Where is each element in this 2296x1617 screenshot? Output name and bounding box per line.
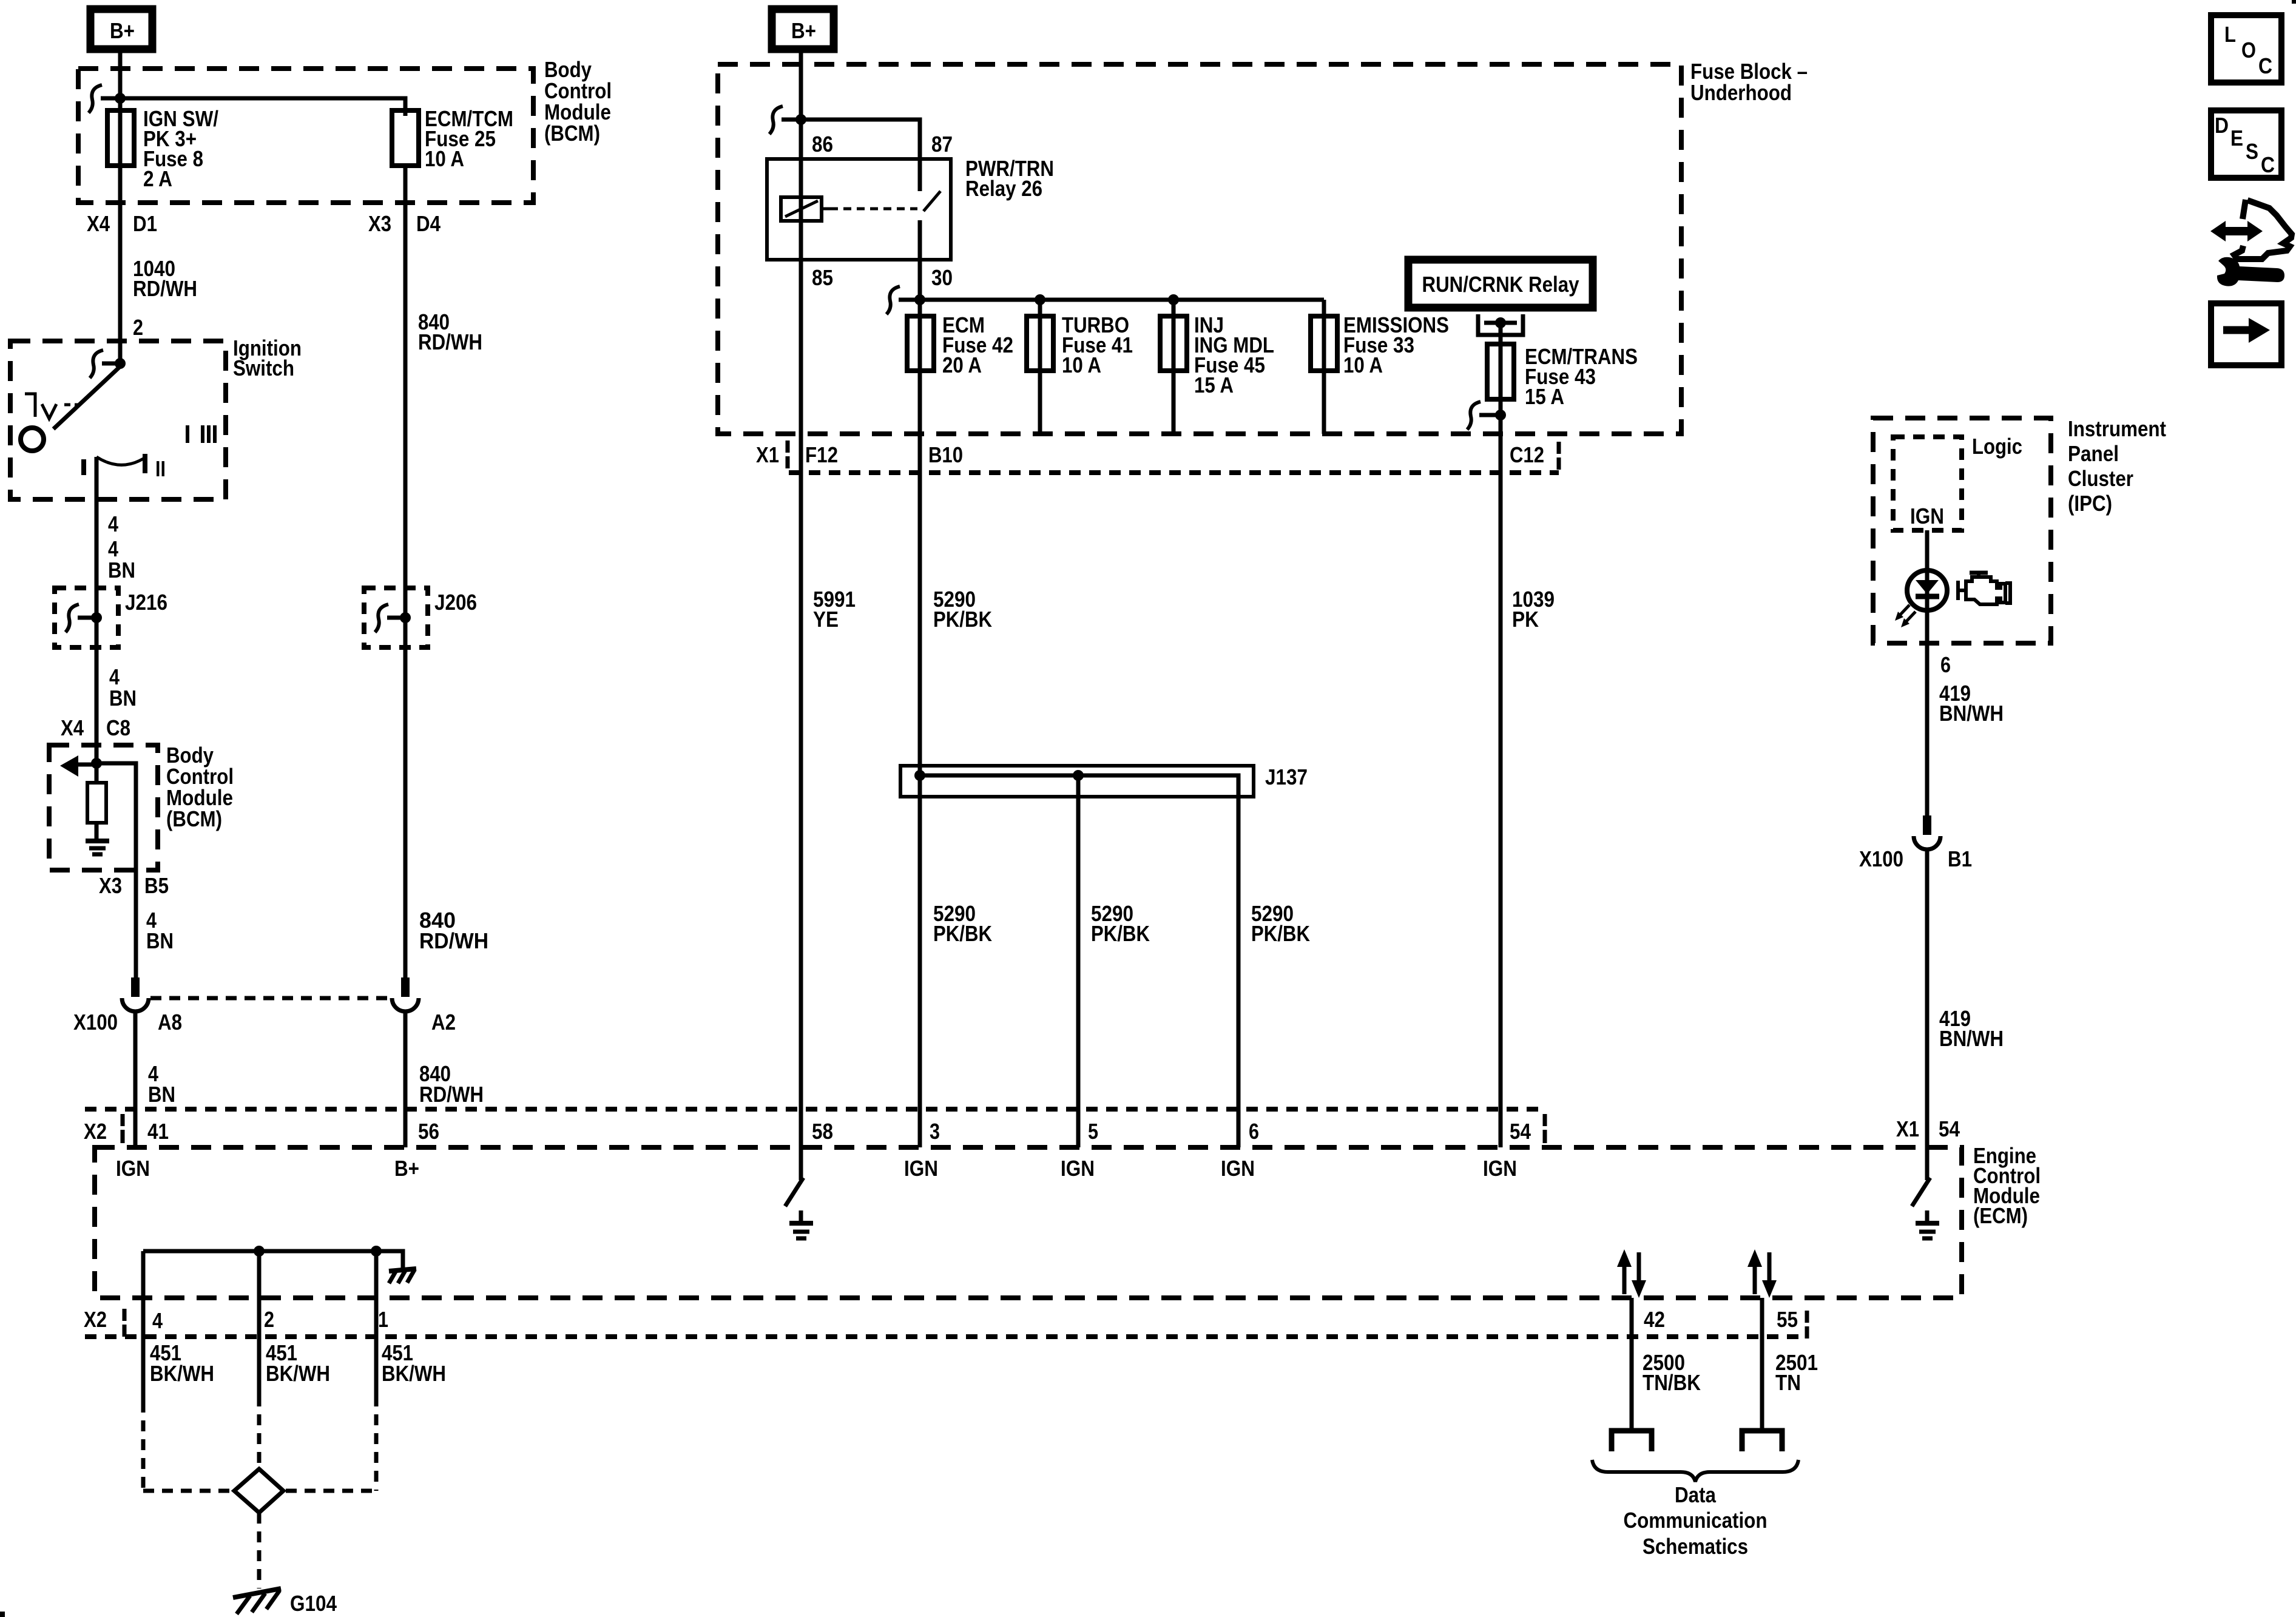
wire to relay pin 87 (801, 120, 920, 191)
svg-text:BN: BN (109, 686, 137, 711)
svg-text:IGN: IGN (904, 1156, 938, 1181)
B+ power terminal box (left) (90, 9, 152, 49)
ECM X2 connector strip (upper) (84, 1109, 1545, 1144)
wire label 1040 RD/WH (133, 256, 197, 301)
wiper travel arc with I and II marks (84, 454, 166, 481)
current-path hook at BCM B+ entry (89, 85, 102, 113)
ignition switch blade (53, 366, 120, 429)
svg-text:RD/WH: RD/WH (419, 1082, 484, 1107)
page artifact mark top-right (2292, 0, 2296, 4)
svg-text:F12: F12 (805, 442, 838, 467)
svg-text:B+: B+ (110, 18, 135, 43)
svg-text:RUN/CRNK Relay: RUN/CRNK Relay (1422, 272, 1579, 297)
svg-text:G104: G104 (290, 1591, 337, 1616)
fuse: IGN SW/PK 3+ Fuse 8 2A (107, 106, 218, 191)
B+ power terminal box (middle) (772, 9, 834, 49)
svg-text:56: 56 (418, 1119, 439, 1144)
svg-text:B+: B+ (394, 1156, 419, 1181)
wire label 4 BN (108, 536, 135, 582)
ECM X1 pin 54 labels (1896, 1116, 1960, 1141)
wire ECM pin 4 (141, 1251, 146, 1402)
svg-text:L: L (2224, 22, 2236, 47)
splice J216 (55, 588, 167, 647)
svg-text:41: 41 (147, 1119, 169, 1144)
svg-text:BN: BN (108, 558, 135, 582)
wire label 2501 TN (1775, 1350, 1818, 1395)
wire IGN down through indicator to X100 B1 (1925, 530, 1930, 815)
pin labels X4 C8 (61, 715, 130, 740)
svg-text:10 A: 10 A (1062, 353, 1101, 377)
svg-text:10 A: 10 A (425, 146, 464, 171)
node: ignition switch feed (115, 358, 126, 369)
svg-text:(ECM): (ECM) (1973, 1203, 2028, 1228)
data link arrows (pin 55) (1747, 1249, 1777, 1298)
wire across BCM to Fuse 25 (120, 98, 405, 116)
svg-text:42: 42 (1644, 1307, 1665, 1332)
hook at fused-output bus (886, 286, 900, 314)
svg-text:YE: YE (813, 607, 839, 632)
svg-text:X1: X1 (1896, 1116, 1919, 1141)
svg-text:Logic: Logic (1972, 434, 2022, 459)
relay coil (781, 197, 822, 221)
wire B+ down through relay coil to ECM pin 58 (799, 53, 803, 1180)
svg-text:Instrument: Instrument (2068, 416, 2166, 441)
ground G104 (233, 1588, 337, 1616)
position marks I III (187, 425, 215, 443)
svg-text:86: 86 (812, 132, 833, 157)
svg-text:Underhood: Underhood (1690, 80, 1792, 105)
wire label 419 BN/WH (upper) (1939, 681, 2004, 726)
svg-text:PK/BK: PK/BK (933, 607, 992, 632)
wire label 2500 TN/BK (1643, 1350, 1701, 1395)
wire label 4 BN (below J216) (109, 664, 137, 711)
branch wire to B5 output (96, 763, 136, 977)
svg-text:54: 54 (1939, 1116, 1960, 1141)
accessory contact mark (25, 394, 35, 417)
svg-text:(IPC): (IPC) (2068, 491, 2112, 516)
wire B+ down through Fuse 8 to ignition switch (118, 53, 123, 363)
svg-text:X100: X100 (73, 1010, 118, 1035)
icon: forward arrow box (2211, 303, 2281, 365)
svg-text:J206: J206 (434, 590, 477, 615)
svg-text:B1: B1 (1948, 846, 1972, 871)
icon: harness routing with wrench (2210, 200, 2292, 286)
fuse: TURBO Fuse 41 10A (1027, 312, 1133, 377)
svg-text:PK/BK: PK/BK (1251, 921, 1310, 946)
fuse: ECM/TRANS Fuse 43 15A (1487, 344, 1638, 409)
svg-text:20 A: 20 A (942, 353, 982, 377)
relay pin 30 wire down to Fuse 42 and B10 (918, 220, 922, 1147)
svg-text:4: 4 (152, 1308, 163, 1333)
svg-text:5: 5 (1088, 1119, 1098, 1144)
svg-text:Panel: Panel (2068, 441, 2119, 466)
label: Instrument Panel Cluster (IPC) (2068, 416, 2166, 516)
svg-text:X4: X4 (87, 211, 110, 236)
hook at ignition switch entry (90, 350, 103, 378)
svg-text:BK/WH: BK/WH (266, 1361, 330, 1386)
node: ground circuit pin 1 (371, 1246, 382, 1257)
svg-text:J216: J216 (125, 590, 167, 615)
svg-text:Switch: Switch (233, 356, 294, 380)
wire label 840 RD/WH (below J206) (419, 908, 488, 953)
check engine icon (1958, 573, 2010, 604)
svg-text:X3: X3 (99, 873, 122, 898)
fuse: ECM/TCM Fuse 25 10A (392, 106, 513, 171)
wire label 451 BK/WH (pin 4) (150, 1340, 214, 1386)
svg-text:Relay 26: Relay 26 (965, 176, 1042, 201)
svg-text:RD/WH: RD/WH (418, 329, 482, 354)
svg-text:2: 2 (264, 1307, 274, 1332)
svg-text:15 A: 15 A (1525, 384, 1564, 409)
svg-text:IGN: IGN (1061, 1156, 1095, 1181)
splice J206 (364, 588, 477, 647)
svg-text:IGN: IGN (1221, 1156, 1255, 1181)
terminal (pin 42 wire end) (1612, 1431, 1652, 1451)
LED indicator (MIL) (1895, 570, 1947, 627)
ECM ground circuit wire (143, 1251, 403, 1270)
svg-text:B+: B+ (791, 18, 816, 43)
dashed ground wires to splice pack (141, 1402, 146, 1491)
svg-text:D1: D1 (133, 211, 157, 236)
svg-text:BK/WH: BK/WH (150, 1361, 214, 1386)
label: Body Control Module (BCM) (544, 57, 612, 146)
svg-text:54: 54 (1510, 1119, 1531, 1144)
svg-text:II: II (155, 456, 166, 481)
wire Fuse 41 output (1038, 300, 1042, 434)
svg-text:IGN: IGN (116, 1156, 150, 1181)
terminal (pin 55 wire end) (1742, 1431, 1782, 1451)
icon: DESC box (2211, 110, 2281, 178)
svg-text:X2: X2 (84, 1119, 107, 1144)
wire A8 down to ECM pin 41 (133, 1011, 138, 1147)
svg-text:3: 3 (930, 1119, 940, 1144)
wire B1 down to ECM X1-54 (1925, 849, 1930, 1180)
wire ECM pin 55 to DLC (1760, 1298, 1764, 1431)
svg-text:10 A: 10 A (1343, 353, 1383, 377)
svg-text:O: O (2241, 38, 2256, 62)
wire label 4 BN (below BCM) (146, 908, 174, 953)
svg-text:Data: Data (1675, 1482, 1717, 1507)
svg-text:(BCM): (BCM) (544, 121, 600, 146)
RUN/CRNK Relay label box (1408, 260, 1593, 308)
svg-text:D: D (2215, 113, 2229, 138)
svg-text:85: 85 (812, 265, 833, 290)
node: bus at pin 30 (914, 294, 925, 305)
ECM internal switch to ground (X1-54) (1912, 1178, 1939, 1238)
svg-text:S: S (2246, 139, 2258, 164)
svg-text:X4: X4 (61, 715, 84, 740)
node: B+ splice in fuse block (795, 114, 806, 125)
svg-text:PK/BK: PK/BK (933, 921, 992, 946)
svg-text:C8: C8 (106, 715, 130, 740)
pin labels X3 D4 (368, 211, 441, 236)
svg-text:55: 55 (1777, 1307, 1798, 1332)
X100 in-line harness dashed link (150, 996, 390, 1001)
hook below Fuse 43 (1467, 402, 1481, 430)
connector X100 pin A2 (392, 977, 456, 1035)
wire ECM pin 1 (374, 1251, 379, 1396)
svg-text:C12: C12 (1510, 442, 1544, 467)
X1 connector strip of fuse block (756, 441, 1559, 473)
hook at fuse block B+ entry (769, 106, 783, 134)
wire to Fuse 43 and C12 (1499, 323, 1503, 1147)
svg-text:30: 30 (931, 265, 953, 290)
arrow to BCM logic (73, 763, 96, 767)
wire Fuse 25 down to connector A2 (403, 166, 408, 977)
pin labels X4 D1 (87, 211, 157, 236)
ECM internal switch to ground (pin 58) (785, 1178, 813, 1238)
svg-text:IGN: IGN (1483, 1156, 1517, 1181)
wire label 5991 YE (813, 587, 856, 632)
wire label 5290 PK/BK (pin 5) (1091, 901, 1150, 946)
node: bus at Fuse 45 (1168, 294, 1179, 305)
dashed wire to G104 (257, 1513, 262, 1588)
svg-text:RD/WH: RD/WH (133, 276, 197, 301)
ground splice pack diamond (234, 1469, 283, 1513)
node: Fuse 43 output splice (1495, 410, 1506, 420)
svg-text:2 A: 2 A (143, 166, 172, 191)
svg-text:Schematics: Schematics (1643, 1534, 1748, 1559)
label: Fuse Block Underhood (1690, 59, 1808, 105)
wire ECM pin 42 to DLC (1630, 1298, 1634, 1431)
svg-text:PK: PK (1512, 607, 1539, 632)
svg-text:E: E (2230, 126, 2243, 150)
svg-text:B10: B10 (928, 442, 963, 467)
relay PWR/TRN Relay 26 box (767, 159, 951, 260)
svg-text:2: 2 (133, 315, 143, 340)
svg-text:X3: X3 (368, 211, 391, 236)
svg-text:87: 87 (931, 132, 953, 157)
svg-text:BN/WH: BN/WH (1939, 1026, 2004, 1051)
node: ground circuit pin 2 (254, 1246, 265, 1257)
fuse: EMISSIONS Fuse 33 10A (1311, 312, 1449, 377)
svg-text:(BCM): (BCM) (166, 806, 222, 831)
ignition switch output wire down to BCM (95, 457, 99, 783)
svg-text:IGN: IGN (1910, 504, 1944, 528)
svg-text:58: 58 (812, 1119, 833, 1144)
svg-text:X1: X1 (756, 442, 779, 467)
wire J137 to ECM pin 5 (1076, 775, 1081, 1147)
svg-text:BN: BN (148, 1082, 175, 1107)
wire label 4 BN (above ECM) (148, 1061, 175, 1107)
ECM X2 connector strip (lower) (84, 1307, 1807, 1338)
svg-text:PK/BK: PK/BK (1091, 921, 1150, 946)
fuse: INJ ING MDL Fuse 45 15A (1160, 312, 1274, 397)
wire label 419 BN/WH (lower) (1939, 1006, 2004, 1051)
svg-text:X100: X100 (1859, 846, 1903, 871)
svg-text:A8: A8 (158, 1010, 182, 1035)
Engine Control Module (ECM) dashed box (95, 1147, 1962, 1298)
Body Control Module (BCM) upper dashed box (78, 69, 533, 203)
node: BCM input splice (91, 758, 102, 769)
wire A2 down to ECM pin 56 (403, 1011, 408, 1147)
wire label 1039 PK (1512, 587, 1555, 632)
icon: LOC box (2211, 15, 2281, 83)
ground (BCM internal) (86, 841, 109, 854)
label: Body Control Module (BCM) lower (166, 743, 234, 831)
svg-text:Communication: Communication (1624, 1508, 1768, 1533)
svg-text:A2: A2 (431, 1010, 456, 1035)
brace: data communication (1592, 1460, 1798, 1482)
relay switch blade (923, 191, 940, 211)
wire label 5290 PK/BK (933, 587, 992, 632)
svg-text:C: C (2261, 152, 2275, 177)
label: Ignition Switch (233, 336, 302, 380)
connector X100 pin B1 (1859, 815, 1972, 871)
wire label 451 BK/WH (pin 2) (266, 1340, 330, 1386)
svg-text:BN/WH: BN/WH (1939, 701, 2004, 726)
svg-text:Cluster: Cluster (2068, 466, 2133, 491)
resistor (BCM internal load) (87, 783, 106, 823)
svg-text:1: 1 (378, 1307, 388, 1332)
pin labels X3 B5 (99, 873, 169, 898)
wire label 5290 PK/BK (pin 6) (1251, 901, 1310, 946)
wire label 840 RD/WH (above ECM) (419, 1061, 484, 1107)
Ignition Switch dashed box (10, 341, 226, 499)
Instrument Panel Cluster (IPC) dashed box (1873, 418, 2051, 643)
chassis ground (ECM internal) (389, 1269, 416, 1283)
svg-text:RD/WH: RD/WH (419, 928, 488, 953)
Body Control Module (BCM) lower dashed box (49, 745, 158, 870)
label: Engine Control Module (ECM) (1973, 1143, 2041, 1228)
wire resistor to ground (95, 823, 99, 840)
wire Fuse 45 output (1172, 300, 1176, 434)
wire label 840 RD/WH (upper) (418, 309, 482, 354)
svg-text:X2: X2 (84, 1307, 107, 1332)
wire label 451 BK/WH (pin 1) (382, 1340, 446, 1386)
svg-text:C: C (2258, 53, 2272, 78)
wire Fuse 33 output (1322, 300, 1326, 434)
IPC Logic dashed box (1893, 437, 1962, 530)
splice J137 (900, 765, 1308, 1147)
wire label 5290 PK/BK (pin 3) (933, 901, 992, 946)
node: B+ splice in BCM (115, 93, 126, 104)
svg-text:BN: BN (146, 928, 174, 953)
svg-text:B5: B5 (144, 873, 169, 898)
label: Data Communication Schematics (1624, 1482, 1768, 1559)
svg-text:TN: TN (1775, 1370, 1801, 1395)
ignition switch rotor contact circle (21, 428, 44, 451)
svg-text:J137: J137 (1265, 765, 1308, 789)
fused ignition bus (899, 298, 1324, 302)
svg-text:6: 6 (1940, 652, 1951, 677)
svg-text:D4: D4 (416, 211, 441, 236)
fuse: ECM Fuse 42 20A (907, 312, 1013, 377)
label: PWR/TRN Relay 26 (965, 156, 1054, 201)
svg-text:6: 6 (1249, 1119, 1259, 1144)
svg-text:TN/BK: TN/BK (1643, 1370, 1701, 1395)
node: bus at Fuse 41 (1035, 294, 1045, 305)
wire ECM pin 2 (257, 1251, 262, 1396)
RUN/CRNK relay output terminal (1478, 314, 1523, 335)
connector X100 pin A8 (73, 977, 182, 1035)
svg-text:15 A: 15 A (1194, 373, 1234, 397)
svg-text:4: 4 (108, 511, 118, 536)
svg-text:BK/WH: BK/WH (382, 1361, 446, 1386)
Fuse Block - Underhood dashed box (718, 64, 1681, 434)
data link arrows (pin 42) (1617, 1249, 1646, 1298)
page artifact mark bottom-left (0, 1612, 5, 1617)
relay coil-contact dashed link (822, 208, 917, 211)
